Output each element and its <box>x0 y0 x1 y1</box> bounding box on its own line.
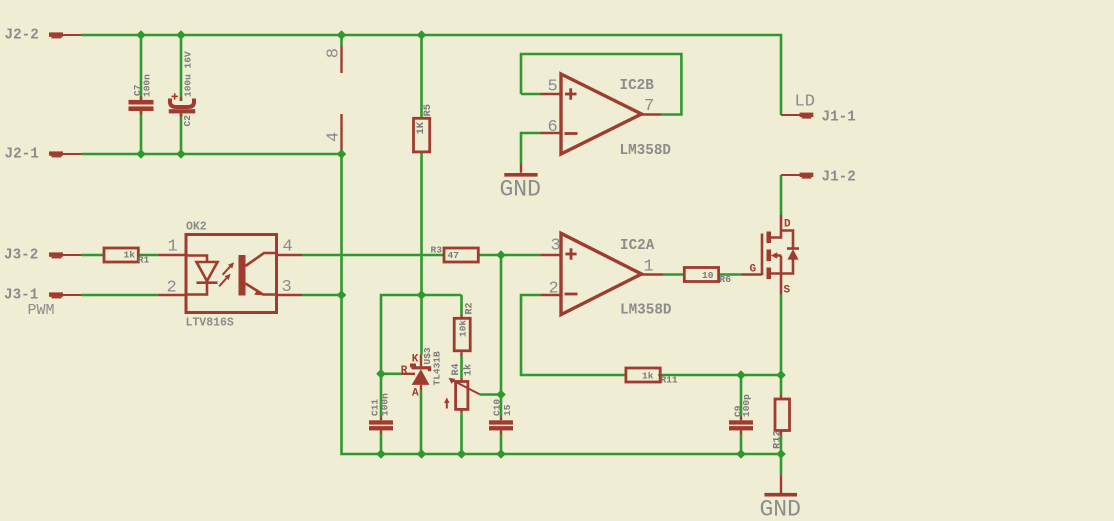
svg-text:PWM: PWM <box>28 302 55 319</box>
svg-text:S: S <box>784 285 791 297</box>
svg-text:R12: R12 <box>772 430 784 449</box>
svg-text:100p: 100p <box>741 394 752 417</box>
svg-text:10: 10 <box>702 270 714 281</box>
svg-text:2: 2 <box>549 280 559 299</box>
svg-text:OK2: OK2 <box>186 221 207 234</box>
svg-text:TL431B: TL431B <box>432 351 443 386</box>
svg-text:R3: R3 <box>431 244 443 255</box>
svg-text:1: 1 <box>168 238 178 257</box>
svg-text:1k: 1k <box>642 370 654 381</box>
svg-text:10k: 10k <box>458 320 469 337</box>
svg-text:IC2A: IC2A <box>620 238 655 254</box>
svg-text:100n: 100n <box>142 74 153 97</box>
svg-text:R6: R6 <box>720 274 732 285</box>
svg-text:J2-1: J2-1 <box>5 147 39 163</box>
svg-text:1k: 1k <box>463 364 475 376</box>
svg-text:R1: R1 <box>138 254 150 265</box>
svg-text:GND: GND <box>500 177 541 203</box>
svg-text:47: 47 <box>448 250 460 261</box>
svg-text:J3-2: J3-2 <box>4 248 38 264</box>
svg-text:R: R <box>401 365 408 377</box>
svg-text:IC2B: IC2B <box>620 78 655 94</box>
svg-text:4: 4 <box>325 132 344 142</box>
svg-text:R5: R5 <box>422 104 434 117</box>
svg-text:8: 8 <box>325 48 344 58</box>
svg-text:J1-2: J1-2 <box>822 170 856 186</box>
svg-text:15: 15 <box>502 404 513 416</box>
svg-text:G: G <box>750 264 757 276</box>
svg-text:C10: C10 <box>492 399 503 416</box>
svg-text:3: 3 <box>551 237 561 256</box>
svg-text:4: 4 <box>283 238 293 257</box>
svg-text:3: 3 <box>282 278 292 297</box>
svg-text:D: D <box>784 219 791 231</box>
svg-text:100u 16V: 100u 16V <box>183 51 194 97</box>
svg-text:1k: 1k <box>124 250 136 261</box>
svg-text:R4: R4 <box>451 363 462 375</box>
svg-text:LTV816S: LTV816S <box>186 317 234 330</box>
svg-text:GND: GND <box>760 496 801 521</box>
svg-text:C2: C2 <box>182 115 193 127</box>
svg-text:A: A <box>412 387 419 399</box>
svg-text:J2-2: J2-2 <box>5 28 39 44</box>
svg-text:LM358D: LM358D <box>620 143 672 159</box>
svg-text:R11: R11 <box>661 375 678 386</box>
svg-text:LD: LD <box>795 93 815 112</box>
svg-text:6: 6 <box>548 118 558 137</box>
svg-text:K: K <box>412 354 419 366</box>
svg-text:J1-1: J1-1 <box>822 110 856 126</box>
svg-text:100n: 100n <box>380 393 391 416</box>
svg-text:2: 2 <box>167 279 177 298</box>
svg-text:1: 1 <box>644 258 654 277</box>
svg-text:5: 5 <box>548 78 558 97</box>
svg-text:7: 7 <box>644 97 654 116</box>
svg-text:1K: 1K <box>415 121 427 134</box>
svg-text:LM358D: LM358D <box>620 303 672 319</box>
svg-text:R2: R2 <box>465 302 476 314</box>
